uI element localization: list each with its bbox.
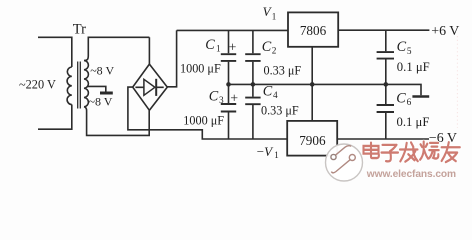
capacitor C1 <box>228 30 230 84</box>
svg-text:1: 1 <box>272 11 277 21</box>
svg-text:0.33 μF: 0.33 μF <box>261 103 299 117</box>
svg-text:1: 1 <box>216 45 221 55</box>
wire 7806 gnd pin <box>311 47 313 85</box>
svg-text:Tr: Tr <box>73 22 86 38</box>
wire 7806 output <box>338 29 429 31</box>
wire bridge - output <box>128 87 287 139</box>
svg-text:www.elecfans.com: www.elecfans.com <box>366 169 456 180</box>
svg-text:1000 μF: 1000 μF <box>180 62 221 76</box>
capacitor C5 <box>385 30 387 84</box>
svg-text:1000 μF: 1000 μF <box>183 114 224 128</box>
svg-text:+: + <box>229 40 237 55</box>
bridge rectifier diamond <box>133 64 168 110</box>
svg-text:C: C <box>263 84 273 100</box>
ground bar right <box>412 95 429 98</box>
faint watermark edge dots <box>456 36 458 128</box>
transformer core <box>78 62 81 109</box>
svg-text:2: 2 <box>272 46 277 56</box>
svg-text:−V: −V <box>257 144 274 159</box>
wire top rail V1 <box>177 29 288 31</box>
regulator U2 7906 box <box>287 121 337 156</box>
svg-text:0.1 μF: 0.1 μF <box>397 60 430 74</box>
capacitor C4 <box>252 84 254 139</box>
svg-text:7806: 7806 <box>300 23 327 38</box>
svg-text:6: 6 <box>407 98 412 108</box>
capacitor C3 <box>228 84 230 139</box>
junction dots <box>226 82 388 87</box>
wire 7906 gnd pin <box>311 84 313 121</box>
svg-text:7906: 7906 <box>299 133 326 148</box>
wire secondary bottom to bridge AC2 <box>84 107 149 136</box>
regulator U1 7806 box <box>288 12 338 46</box>
wire primary top <box>38 37 72 67</box>
svg-text:4: 4 <box>273 91 278 101</box>
svg-text:+6 V: +6 V <box>431 24 459 39</box>
svg-text:~220 V: ~220 V <box>19 77 56 91</box>
svg-text:C: C <box>262 39 272 55</box>
transformer Tr secondary winding <box>84 61 88 107</box>
wire bridge + to top rail <box>167 30 176 86</box>
capacitor C2 <box>252 30 254 84</box>
svg-text:C: C <box>205 37 215 53</box>
transformer Tr primary winding <box>67 67 72 105</box>
watermark logo circle with plug <box>326 144 363 181</box>
ground bar center tap <box>100 92 113 95</box>
svg-text:C: C <box>209 88 219 104</box>
wire center tap <box>87 86 106 91</box>
svg-text:C: C <box>397 39 407 55</box>
svg-text:3: 3 <box>219 96 224 106</box>
diode inside bridge <box>135 86 163 88</box>
wire secondary top lead <box>84 37 149 60</box>
svg-text:1: 1 <box>274 150 279 160</box>
wire middle ground rail <box>229 84 422 95</box>
svg-text:~8 V: ~8 V <box>89 94 113 108</box>
svg-text:C: C <box>396 91 406 107</box>
svg-text:0.1 μF: 0.1 μF <box>397 115 430 129</box>
svg-text:+: + <box>230 92 238 107</box>
wire bottom rail right <box>337 138 429 140</box>
wire bridge top AC1 <box>148 37 150 64</box>
svg-text:0.33 μF: 0.33 μF <box>264 63 302 77</box>
wire primary bottom <box>38 105 72 130</box>
svg-text:5: 5 <box>407 47 412 57</box>
svg-text:~8 V: ~8 V <box>90 64 114 78</box>
capacitor C6 <box>385 84 387 139</box>
